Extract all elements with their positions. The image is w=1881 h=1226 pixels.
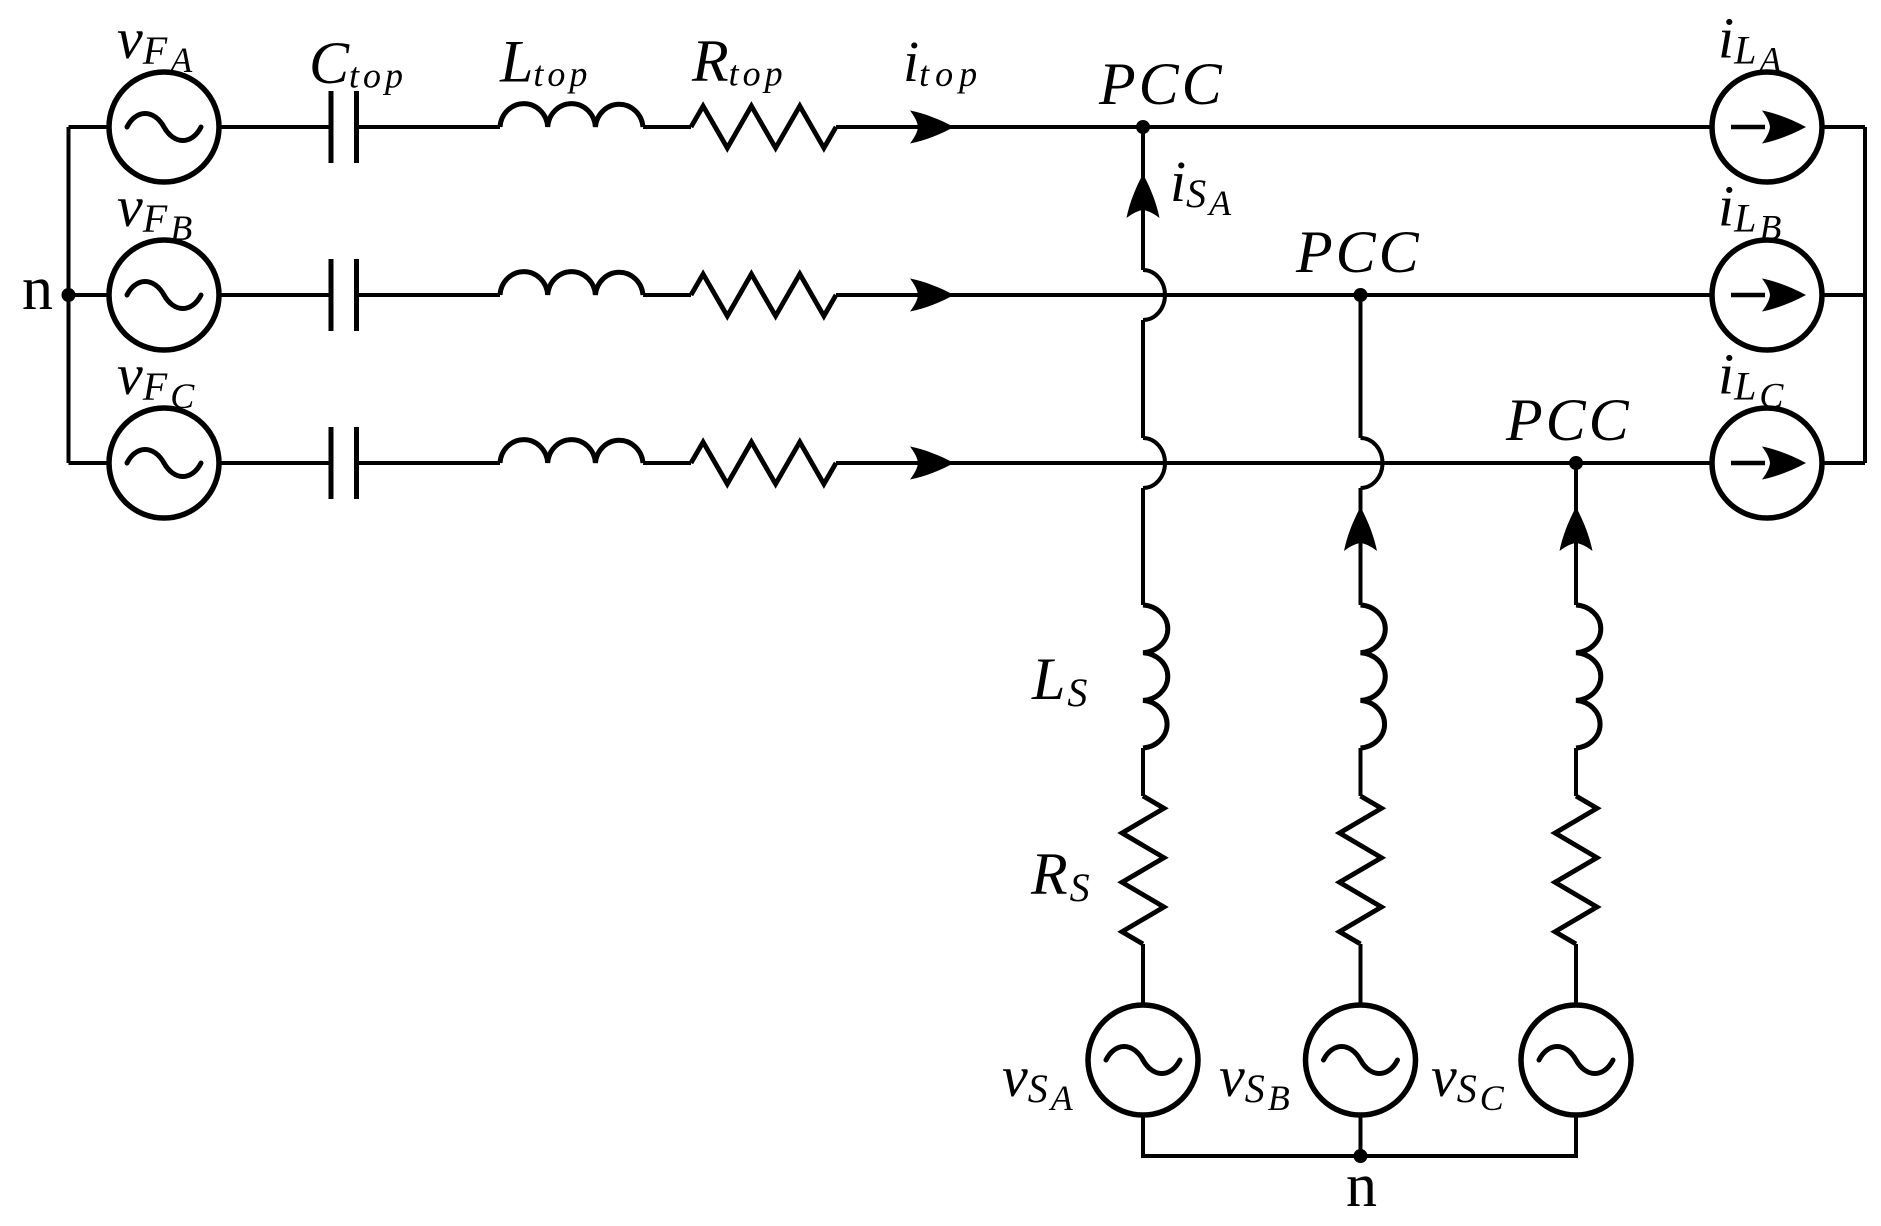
svg-text:RS: RS: [1030, 841, 1090, 910]
current arrow iSB: [1344, 507, 1377, 551]
wire LS to RS (branch B): [1359, 748, 1363, 796]
svg-text:itop: itop: [903, 29, 983, 94]
wire resistor B to iLB: [836, 293, 1712, 297]
wire RS to vSB: [1359, 944, 1363, 1005]
wire PCC B down to hop C: [1359, 295, 1363, 438]
wire n to vFC: [69, 461, 111, 465]
svg-text:vSA: vSA: [1002, 1044, 1074, 1118]
wire vFC to capacitor C: [219, 461, 329, 465]
wire resistor C to iLC: [836, 461, 1712, 465]
svg-text:n: n: [1346, 1152, 1377, 1220]
wire RS to vSA: [1141, 944, 1145, 1005]
node PCC (phase C): [1569, 456, 1583, 470]
current arrow (phase B): [910, 279, 954, 312]
svg-text:vFA: vFA: [117, 6, 193, 80]
resistor RS (branch B): [1340, 796, 1382, 944]
inductor (phase B): [500, 272, 643, 295]
wire LS to RS (branch C): [1574, 748, 1578, 796]
wire Ltop to Rtop: [643, 125, 691, 129]
wire left neutral bus vertical: [67, 127, 71, 463]
wire vFB to capacitor B: [219, 293, 329, 297]
wire n to vFA: [69, 125, 111, 129]
svg-text:vSC: vSC: [1431, 1044, 1505, 1118]
wire Ctop to Ltop: [359, 125, 501, 129]
voltage source vSC: [1521, 1005, 1631, 1115]
svg-text:PCC: PCC: [1505, 387, 1632, 453]
svg-text:iLB: iLB: [1718, 174, 1781, 248]
capacitor (phase B): [331, 259, 357, 331]
wire vSC to bottom bus: [1574, 1115, 1578, 1158]
wire iLB to right bus: [1822, 293, 1865, 297]
wire vSA to bottom bus: [1141, 1115, 1145, 1158]
current arrow iSC: [1560, 507, 1593, 551]
svg-text:PCC: PCC: [1098, 51, 1225, 117]
current source iLC: [1712, 408, 1822, 518]
voltage source vSA: [1088, 1005, 1198, 1115]
wire LS to RS (branch A): [1141, 748, 1145, 796]
wire hop over phase C (branch A): [1143, 438, 1165, 488]
wire capacitor C to inductor C: [359, 461, 501, 465]
inductor LS (branch A): [1143, 605, 1168, 748]
current arrow (phase C): [910, 447, 954, 480]
wire RS to vSC: [1574, 944, 1578, 1005]
wire between hops (branch A): [1141, 320, 1145, 438]
node PCC (phase A): [1136, 120, 1150, 134]
bottom neutral bus: [1141, 1154, 1578, 1158]
svg-text:Ltop: Ltop: [499, 29, 591, 95]
node n (left): [62, 288, 76, 302]
wire hop to LS (branch B): [1359, 488, 1363, 605]
voltage source vSB: [1306, 1005, 1416, 1115]
wire vFA to Ctop: [219, 125, 329, 129]
wire PCC C down (branch C): [1574, 463, 1578, 605]
wire hop to LS (branch A): [1141, 488, 1145, 605]
right load bus vertical: [1863, 127, 1867, 463]
svg-text:vFB: vFB: [117, 174, 192, 248]
svg-text:Rtop: Rtop: [691, 28, 787, 94]
inductor LS (branch C): [1576, 605, 1601, 748]
node PCC (phase B): [1354, 288, 1368, 302]
node n (bottom): [1354, 1149, 1368, 1163]
svg-text:vSB: vSB: [1219, 1044, 1290, 1118]
inductor (phase C): [500, 440, 643, 463]
resistor RS (branch A): [1122, 796, 1164, 944]
voltage source vFC: [109, 408, 219, 518]
resistor (phase B): [691, 274, 836, 316]
wire hop over phase B (branch A): [1143, 270, 1165, 320]
wire hop over phase C (branch B): [1361, 438, 1383, 488]
svg-text:LS: LS: [1031, 646, 1087, 715]
wire inductor B to resistor B: [643, 293, 691, 297]
current arrow iSA: [1127, 174, 1160, 218]
current source iLA: [1712, 72, 1822, 182]
svg-text:iLC: iLC: [1718, 342, 1784, 416]
svg-text:n: n: [22, 255, 53, 323]
wire PCC A down to hop B: [1141, 127, 1145, 270]
voltage source vFB: [109, 240, 219, 350]
wire iLC to right bus: [1822, 461, 1865, 465]
svg-text:Ctop: Ctop: [309, 30, 407, 96]
wire Rtop to iLA: [836, 125, 1712, 129]
voltage source vFA: [109, 72, 219, 182]
current arrow i_top (phase A): [910, 111, 954, 144]
resistor (phase C): [691, 442, 836, 484]
resistor Rtop (phase A): [691, 106, 836, 148]
svg-text:iSA: iSA: [1170, 149, 1232, 223]
inductor Ltop (phase A): [500, 104, 643, 127]
capacitor Ctop (phase A): [331, 91, 357, 163]
svg-text:PCC: PCC: [1295, 219, 1422, 285]
wire vSB to bottom bus: [1359, 1115, 1363, 1158]
wire iLA to right bus: [1822, 125, 1865, 129]
svg-text:vFC: vFC: [117, 342, 195, 416]
wire n to vFB: [69, 293, 111, 297]
svg-text:iLA: iLA: [1718, 6, 1782, 80]
capacitor (phase C): [331, 427, 357, 499]
inductor LS (branch B): [1361, 605, 1386, 748]
wire capacitor B to inductor B: [359, 293, 501, 297]
current source iLB: [1712, 240, 1822, 350]
resistor RS (branch C): [1555, 796, 1597, 944]
wire inductor C to resistor C: [643, 461, 691, 465]
